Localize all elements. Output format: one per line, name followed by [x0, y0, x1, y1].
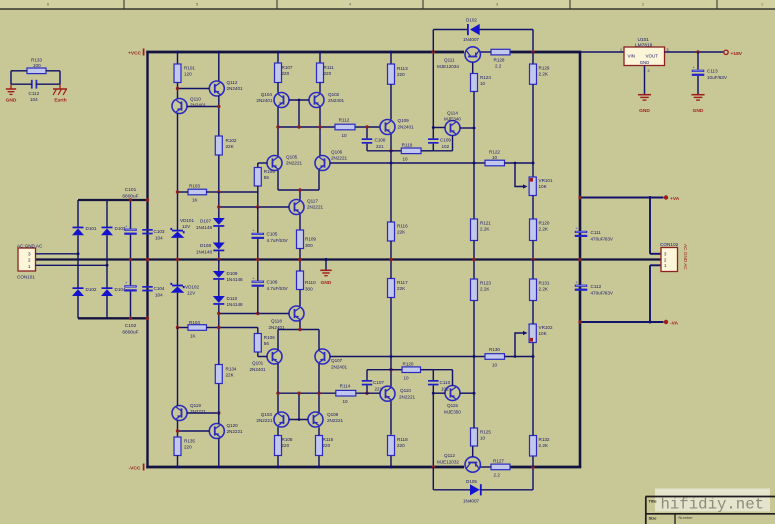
- svg-text:Q107: Q107: [331, 358, 343, 363]
- svg-text:R107: R107: [282, 65, 293, 70]
- resistor R125: [471, 428, 478, 446]
- svg-text:220: 220: [184, 445, 192, 450]
- wire C101 leads: [130, 200, 132, 229]
- svg-text:CON101: CON101: [17, 275, 35, 280]
- zener VD102: [177, 260, 179, 286]
- svg-text:2N2221: 2N2221: [286, 161, 303, 166]
- svg-text:R105: R105: [264, 169, 275, 174]
- wire D105 column up to Q115 base: [432, 385, 434, 467]
- wire diff emitters: [277, 170, 279, 190]
- diode D107: [218, 192, 220, 218]
- resistor R132: [532, 456, 534, 467]
- wire U101 VOUT to +18V: [665, 51, 724, 53]
- svg-text:120: 120: [184, 72, 192, 77]
- wire -VCC bottom rail: [146, 466, 464, 469]
- transistor Q115: [445, 386, 460, 401]
- svg-text:10K: 10K: [539, 331, 548, 336]
- svg-text:300: 300: [305, 243, 313, 248]
- transistor Q105: [267, 156, 282, 171]
- svg-text:D102: D102: [86, 287, 97, 292]
- resistor R129: [532, 52, 534, 64]
- svg-text:56: 56: [264, 341, 270, 346]
- junction PSU: [129, 198, 132, 201]
- wire bridge left column: [77, 235, 79, 287]
- resistor R105: [254, 168, 261, 187]
- svg-text:LM7818: LM7818: [635, 43, 653, 49]
- svg-text:R114: R114: [340, 384, 351, 389]
- svg-text:2.2K: 2.2K: [539, 287, 549, 292]
- svg-text:104: 104: [155, 293, 163, 298]
- resistor R122: [474, 162, 485, 164]
- svg-text:C112: C112: [29, 91, 40, 96]
- svg-text:AC GND AC: AC GND AC: [683, 244, 688, 270]
- svg-text:Earth: Earth: [54, 98, 66, 104]
- svg-text:1: 1: [28, 264, 31, 269]
- svg-text:Q105: Q105: [286, 155, 298, 160]
- wire right supply vertical: [579, 52, 582, 467]
- svg-text:6: 6: [47, 2, 49, 6]
- wire left supply vertical: [146, 51, 148, 469]
- svg-text:MJE340: MJE340: [444, 117, 461, 122]
- diode D108: [218, 227, 220, 243]
- wire C107 to R120 line: [367, 369, 391, 371]
- wire R102 to bias node: [218, 155, 220, 192]
- svg-text:102: 102: [442, 144, 450, 149]
- svg-text:R134: R134: [226, 367, 237, 372]
- wire Q111 base: [472, 62, 474, 73]
- wire Q103-Q108 base tie: [289, 419, 308, 421]
- svg-text:2: 2: [648, 69, 650, 73]
- svg-text:C107: C107: [373, 380, 384, 385]
- svg-text:-VA: -VA: [670, 321, 679, 327]
- svg-text:+18V: +18V: [731, 51, 743, 57]
- resistor R117: [388, 279, 395, 298]
- svg-text:VR101: VR101: [539, 178, 553, 183]
- wire +VCC top rail: [146, 51, 464, 54]
- svg-text:2N2401: 2N2401: [398, 124, 415, 129]
- svg-text:U101: U101: [638, 37, 650, 43]
- capacitor C107: [366, 385, 368, 393]
- svg-text:C106: C106: [267, 280, 278, 285]
- wire CON102 pin3 riser: [649, 198, 651, 254]
- svg-text:3: 3: [496, 2, 498, 6]
- svg-text:220: 220: [397, 72, 405, 77]
- transistor Q101: [267, 349, 282, 364]
- wire bottom diff emitters: [277, 330, 279, 350]
- svg-text:GND: GND: [639, 108, 650, 114]
- capacitor C108: [366, 127, 368, 138]
- resistor R102: [215, 136, 222, 155]
- resistor R120: [532, 196, 534, 220]
- svg-text:Title: Title: [649, 498, 658, 503]
- svg-text:1: 1: [620, 48, 622, 52]
- resistor R124: [471, 74, 478, 92]
- svg-text:D110: D110: [227, 296, 238, 301]
- svg-text:R131: R131: [539, 281, 550, 286]
- svg-text:+VCC: +VCC: [128, 51, 142, 57]
- wire Q119 emitter: [177, 420, 179, 437]
- svg-text:R130: R130: [489, 347, 500, 352]
- svg-text:3: 3: [667, 48, 669, 52]
- svg-text:470uF/63V: 470uF/63V: [591, 290, 614, 295]
- svg-text:R118: R118: [397, 437, 408, 442]
- transistor Q103: [277, 427, 279, 435]
- transistor Q119: [172, 406, 187, 421]
- svg-text:2.2: 2.2: [494, 473, 501, 478]
- diode D102: [433, 29, 468, 31]
- svg-text:VR102: VR102: [539, 325, 553, 330]
- svg-text:220: 220: [282, 443, 290, 448]
- resistor R103: [188, 189, 207, 195]
- wire bottom mirror line: [278, 392, 336, 394]
- svg-text:2N2221: 2N2221: [399, 394, 416, 399]
- svg-text:10: 10: [341, 133, 347, 138]
- svg-text:2.2: 2.2: [495, 64, 502, 69]
- svg-text:R128: R128: [494, 58, 505, 63]
- svg-text:1N4007: 1N4007: [463, 499, 480, 504]
- svg-text:220: 220: [323, 443, 331, 448]
- wire Q109 emitter: [390, 134, 392, 151]
- resistor R127: [491, 464, 510, 470]
- svg-text:-VCC: -VCC: [129, 466, 141, 472]
- svg-text:R132: R132: [539, 437, 550, 442]
- wire Q114 base: [433, 127, 445, 129]
- svg-text:Q110: Q110: [190, 97, 201, 102]
- svg-text:1N4148: 1N4148: [227, 302, 244, 307]
- wire rail to U101: [581, 51, 624, 53]
- svg-text:R120: R120: [539, 221, 550, 226]
- power -VA: [664, 320, 668, 324]
- wire Q112 base: [178, 88, 210, 90]
- regulator U101: [624, 47, 665, 66]
- wire Q110 emitter: [177, 113, 179, 192]
- svg-text:10uF/63V: 10uF/63V: [707, 75, 728, 80]
- svg-text:10: 10: [480, 81, 486, 86]
- svg-text:2.2K: 2.2K: [539, 443, 549, 448]
- wire C108 to R119 line: [367, 150, 391, 152]
- transistor Q112: [218, 52, 220, 81]
- svg-text:Q106: Q106: [331, 150, 343, 155]
- svg-text:22K: 22K: [226, 373, 235, 378]
- wire Q118 base line: [219, 313, 289, 315]
- svg-text:2N2401: 2N2401: [227, 86, 244, 91]
- svg-text:R113: R113: [397, 66, 408, 71]
- wire Q115 collector: [460, 392, 474, 394]
- wire Q120 base: [178, 430, 210, 432]
- svg-text:R104: R104: [189, 320, 200, 325]
- diode D105: [433, 489, 470, 491]
- wire center ground line: [36, 258, 661, 260]
- svg-text:R127: R127: [493, 459, 504, 464]
- svg-text:1N4148: 1N4148: [196, 249, 213, 254]
- connector CON101: [18, 248, 36, 271]
- title block: [655, 489, 770, 512]
- wire PSU positive rail: [78, 199, 146, 201]
- wire Q104-Q102 base tie: [289, 99, 309, 101]
- transistor Q104: [277, 83, 279, 93]
- svg-text:470uF/63V: 470uF/63V: [591, 236, 614, 241]
- svg-text:R109: R109: [305, 237, 316, 242]
- wire mirror collectors: [277, 107, 279, 156]
- wire R103 leads: [178, 191, 189, 193]
- wire Q115 base: [433, 392, 445, 394]
- svg-text:Q114: Q114: [447, 111, 458, 116]
- resistor R115: [318, 456, 320, 468]
- svg-text:10: 10: [402, 157, 408, 162]
- svg-text:Q112: Q112: [444, 453, 455, 458]
- wire Q120 emitter: [218, 438, 220, 467]
- ground GND U101: [638, 94, 651, 96]
- capacitor C102: [124, 285, 137, 287]
- svg-text:D102: D102: [466, 18, 477, 23]
- svg-text:D107: D107: [200, 219, 211, 224]
- junction bridge AC nodes: [77, 252, 80, 255]
- ground GND center: [324, 258, 327, 261]
- svg-text:12V: 12V: [182, 224, 191, 229]
- wire Q114 collector: [460, 127, 474, 129]
- svg-text:1N4148: 1N4148: [227, 277, 244, 282]
- svg-text:2N2221: 2N2221: [331, 156, 348, 161]
- transistor Q112 output: [465, 457, 480, 472]
- wire Q105 base to R105: [258, 162, 267, 164]
- wire D110 to bias node: [218, 305, 220, 328]
- svg-text:C109: C109: [440, 138, 451, 143]
- svg-text:C102: C102: [125, 323, 137, 329]
- svg-text:2N2401: 2N2401: [250, 367, 267, 372]
- resistor R107: [277, 52, 279, 63]
- resistor R114: [336, 390, 356, 396]
- power +VA: [664, 195, 668, 199]
- svg-text:GND: GND: [6, 98, 17, 104]
- capacitor C105: [252, 233, 264, 235]
- svg-text:MJE350: MJE350: [444, 409, 461, 414]
- svg-text:D101: D101: [86, 226, 97, 231]
- diode D109: [218, 260, 220, 272]
- wire Q101 base to R106: [258, 356, 267, 358]
- resistor R121: [471, 219, 478, 241]
- ground GND C113: [691, 94, 704, 96]
- svg-text:Q115: Q115: [447, 403, 458, 408]
- svg-text:R101: R101: [184, 66, 195, 71]
- svg-text:5: 5: [196, 2, 198, 6]
- svg-text:2: 2: [28, 258, 31, 263]
- wire R104 leads: [178, 327, 189, 329]
- svg-text:1N4148: 1N4148: [196, 225, 213, 230]
- svg-text:R123: R123: [480, 281, 491, 286]
- svg-text:R117: R117: [397, 280, 408, 285]
- svg-text:D108: D108: [200, 243, 211, 248]
- svg-text:MJE12034: MJE12034: [437, 64, 459, 69]
- capacitor C101: [124, 229, 137, 231]
- svg-text:300: 300: [305, 287, 313, 292]
- svg-text:104: 104: [155, 236, 163, 241]
- svg-text:2.2K: 2.2K: [480, 287, 490, 292]
- wire Q114 emitter: [452, 136, 454, 151]
- resistor R119: [391, 150, 401, 152]
- svg-text:D105: D105: [466, 479, 477, 484]
- svg-text:Q119: Q119: [190, 403, 201, 408]
- svg-text:R116: R116: [397, 224, 408, 229]
- svg-text:220: 220: [324, 71, 332, 76]
- svg-text:R121: R121: [480, 221, 491, 226]
- svg-text:1K: 1K: [192, 198, 199, 203]
- wire Q112 base: [472, 446, 474, 457]
- wire C105 leads: [257, 207, 259, 233]
- svg-text:D104: D104: [115, 287, 126, 292]
- transistor Q110 vas: [390, 401, 392, 435]
- capacitor C110: [428, 380, 439, 382]
- resistor R104: [188, 325, 207, 331]
- transistor Q120: [209, 424, 224, 439]
- resistor R123: [473, 260, 475, 280]
- junction left column: [176, 87, 179, 90]
- svg-text:Q112: Q112: [227, 80, 238, 85]
- svg-text:6800uF: 6800uF: [122, 330, 138, 336]
- ground Earth (input): [59, 84, 61, 89]
- junction R127/R132: [531, 465, 534, 468]
- transistor Q114: [445, 121, 460, 136]
- wire R124 column: [473, 92, 475, 220]
- svg-text:C111: C111: [591, 230, 602, 235]
- resistor R134: [215, 365, 222, 384]
- svg-text:hifidiy.net: hifidiy.net: [661, 496, 765, 514]
- svg-text:R102: R102: [226, 138, 237, 143]
- svg-text:2.2K: 2.2K: [480, 227, 490, 232]
- diode D101: [77, 200, 79, 227]
- svg-text:220: 220: [397, 443, 405, 448]
- svg-text:C103: C103: [154, 229, 165, 234]
- svg-text:R106: R106: [264, 335, 275, 340]
- resistor R116: [388, 222, 395, 241]
- svg-text:Q120: Q120: [227, 423, 239, 428]
- svg-text:2.2K: 2.2K: [539, 72, 549, 77]
- svg-text:2N2221: 2N2221: [227, 429, 244, 434]
- diode D103: [106, 200, 108, 227]
- svg-text:Q104: Q104: [261, 92, 273, 97]
- svg-text:Q103: Q103: [261, 412, 273, 417]
- wire +VA line: [580, 197, 664, 199]
- svg-text:C110: C110: [440, 380, 451, 385]
- svg-text:R122: R122: [489, 149, 500, 154]
- wire R116 column: [390, 151, 392, 222]
- svg-text:221: 221: [376, 144, 384, 149]
- svg-text:22K: 22K: [397, 230, 406, 235]
- resistor R133: [27, 68, 46, 74]
- wire PSU negative rail: [78, 317, 146, 319]
- svg-text:3: 3: [28, 252, 31, 257]
- svg-text:D109: D109: [227, 271, 238, 276]
- power +18V: [724, 50, 728, 54]
- svg-text:VD102: VD102: [185, 285, 199, 290]
- svg-text:C112: C112: [591, 284, 602, 289]
- svg-text:Q101: Q101: [252, 361, 264, 366]
- svg-text:1K: 1K: [190, 334, 197, 339]
- svg-text:56: 56: [264, 175, 270, 180]
- wire Q115 emitter: [452, 370, 454, 386]
- svg-text:R125: R125: [480, 430, 491, 435]
- wire bottom mirror collectors: [277, 393, 279, 412]
- svg-text:AC GND AC: AC GND AC: [17, 244, 43, 249]
- svg-text:104: 104: [30, 97, 38, 102]
- svg-text:VOUT: VOUT: [646, 53, 659, 58]
- capacitor C112 output: [575, 285, 588, 287]
- transistor Q102: [319, 83, 321, 93]
- svg-text:1N4007: 1N4007: [463, 37, 480, 42]
- wire VR101 wiper: [515, 163, 523, 187]
- svg-text:R111: R111: [324, 65, 335, 70]
- svg-text:12V: 12V: [187, 291, 196, 296]
- svg-text:100: 100: [33, 63, 41, 68]
- svg-text:C113: C113: [707, 69, 718, 74]
- connector CON102: [661, 248, 678, 272]
- svg-text:4: 4: [349, 2, 351, 6]
- transistor Q118: [289, 306, 304, 321]
- transistor Q117: [289, 200, 304, 215]
- wire C106 leads: [257, 260, 259, 281]
- resistor R120 bottom: [391, 369, 402, 371]
- capacitor C113: [697, 52, 699, 70]
- resistor R118: [390, 456, 392, 468]
- svg-text:22K: 22K: [397, 286, 406, 291]
- transistor Q109: [390, 84, 392, 119]
- potentiometer VR101: [529, 177, 536, 196]
- svg-text:Q110: Q110: [400, 388, 411, 393]
- wire Q112 emitter: [218, 96, 220, 136]
- transistor Q110 input: [177, 83, 179, 100]
- svg-text:+VA: +VA: [670, 196, 680, 202]
- svg-text:C108: C108: [375, 138, 386, 143]
- svg-text:4.7uF/63V: 4.7uF/63V: [267, 238, 289, 243]
- svg-text:R129: R129: [539, 66, 550, 71]
- resistor R130: [474, 356, 485, 358]
- resistor R128: [491, 49, 510, 55]
- wire R129 to VR101: [532, 84, 534, 177]
- wire CON101 pin1 to bridge: [36, 264, 108, 266]
- svg-text:VD101: VD101: [180, 218, 194, 223]
- svg-text:2N2401: 2N2401: [328, 98, 345, 103]
- transistor Q106: [315, 156, 330, 171]
- resistor R109: [299, 214, 301, 230]
- wire bottom diff collectors: [277, 364, 279, 393]
- svg-text:R119: R119: [402, 143, 413, 148]
- wire Q119 base: [187, 412, 219, 414]
- svg-text:GND: GND: [693, 108, 704, 114]
- svg-text:CON102: CON102: [660, 242, 679, 247]
- svg-text:2N2221: 2N2221: [307, 205, 324, 210]
- wire Q117 base line: [219, 206, 289, 208]
- svg-text:Q118: Q118: [271, 319, 282, 324]
- wire D102 column down to Q114 base: [432, 52, 434, 138]
- svg-text:VIN: VIN: [628, 53, 636, 58]
- wire -VA line: [580, 321, 664, 323]
- capacitor C109: [428, 138, 439, 140]
- capacitor C111: [575, 231, 588, 233]
- svg-text:10: 10: [480, 436, 486, 441]
- wire R105 bottom: [257, 186, 259, 207]
- wire Q120 collector: [218, 384, 220, 424]
- transistor Q107: [315, 349, 330, 364]
- svg-text:10: 10: [492, 362, 498, 367]
- wire Q107 base feedback line: [330, 356, 474, 358]
- wire D108 to center: [218, 251, 220, 259]
- svg-text:R103: R103: [189, 184, 200, 189]
- svg-text:2N2401: 2N2401: [331, 365, 348, 370]
- diode D110: [218, 280, 220, 296]
- resistor R113: [390, 52, 392, 64]
- svg-text:10: 10: [403, 375, 409, 380]
- svg-text:R108: R108: [282, 437, 293, 442]
- svg-text:Q108: Q108: [327, 412, 339, 417]
